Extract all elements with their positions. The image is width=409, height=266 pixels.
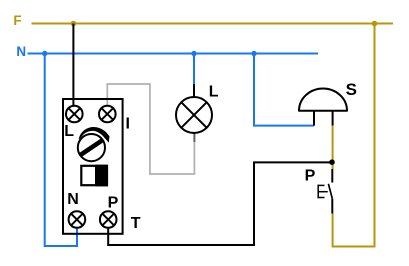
wire blue N down left side <box>45 54 77 247</box>
svg-text:F: F <box>13 13 21 28</box>
wire yellow buzzer to button junction <box>332 126 334 169</box>
svg-text:P: P <box>108 194 119 211</box>
timer arrow flag <box>79 127 110 143</box>
buzzer right leg <box>332 111 334 126</box>
buzzer left leg <box>313 111 315 126</box>
svg-text:P: P <box>305 167 316 184</box>
buzzer S dome <box>299 89 347 111</box>
wire black P terminal to button <box>108 162 332 245</box>
wire gray lamp return loop <box>107 84 194 174</box>
wire dark stub lamp bottom <box>193 133 195 142</box>
wire black stub lamp top <box>193 84 195 98</box>
push button P bottom contact <box>331 199 333 214</box>
junction dot on F at x=73 <box>71 21 77 27</box>
svg-text:S: S <box>346 80 357 99</box>
svg-text:N: N <box>67 191 79 208</box>
push button P blade <box>328 184 332 199</box>
timer knob circle <box>78 134 105 161</box>
svg-text:L: L <box>64 123 74 140</box>
junction dot on N at x=194 <box>191 51 196 56</box>
timer device box <box>63 99 123 234</box>
timer knob slot <box>80 140 103 155</box>
push button P actuator <box>318 185 328 199</box>
push button P top contact <box>331 169 333 183</box>
svg-text:I: I <box>126 116 130 133</box>
terminal I circle <box>99 106 116 123</box>
indicator half-black square <box>81 165 108 187</box>
wire blue N to lamp <box>193 54 195 85</box>
svg-text:T: T <box>131 215 141 232</box>
terminal N circle <box>69 211 86 228</box>
svg-text:L: L <box>209 83 219 100</box>
junction dot on N at x=44 <box>42 51 47 56</box>
junction dot on F at x=374 <box>372 21 378 27</box>
svg-text:N: N <box>16 44 26 59</box>
phase line F <box>32 23 394 25</box>
lamp L circle <box>176 97 212 133</box>
terminal P circle <box>100 211 117 228</box>
junction dot at button top <box>329 159 335 165</box>
wire yellow right side from F <box>333 24 375 247</box>
wire blue N to buzzer <box>254 54 314 126</box>
wire black F to terminal L <box>72 24 74 107</box>
terminal L circle <box>66 106 83 123</box>
junction dot on N at x=254 <box>251 51 256 56</box>
neutral line N <box>28 53 319 55</box>
